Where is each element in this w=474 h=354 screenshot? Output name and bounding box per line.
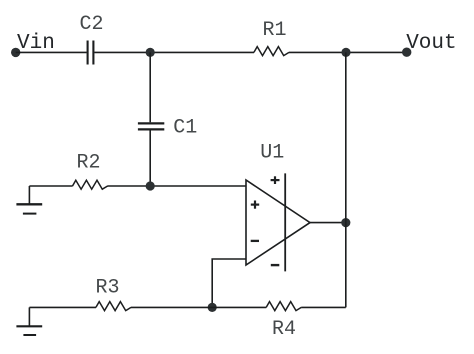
wire R4 to feedback column bbox=[301, 306, 346, 308]
wire R3 to junction bbox=[131, 306, 212, 308]
capacitor C1 bbox=[138, 123, 164, 129]
ground GND1 bbox=[16, 186, 42, 214]
wire inverting input to feedback node bbox=[212, 259, 246, 307]
resistor R4 bbox=[266, 302, 301, 311]
node Vout bbox=[402, 48, 411, 57]
junction node R3/R4 bbox=[208, 303, 217, 312]
wire R1 to Vout bbox=[289, 51, 407, 53]
op-amp negative supply symbol bbox=[271, 264, 280, 266]
resistor R1 bbox=[254, 47, 289, 56]
resistor R3 bbox=[96, 302, 131, 311]
svg-text:U1: U1 bbox=[260, 141, 284, 164]
junction node at feedback column bbox=[341, 48, 350, 57]
svg-text:R4: R4 bbox=[272, 318, 296, 341]
op-amp plus input symbol bbox=[251, 201, 259, 209]
op-amp U1 triangle bbox=[246, 180, 310, 265]
svg-text:R2: R2 bbox=[76, 151, 100, 174]
svg-text:Vout: Vout bbox=[406, 32, 456, 55]
node Vin bbox=[11, 48, 20, 57]
wire GND1 to R2 bbox=[29, 185, 72, 187]
wire C1 to R2 rail bbox=[149, 130, 151, 186]
ground GND2 bbox=[16, 307, 42, 335]
op-amp minus input symbol bbox=[251, 240, 259, 242]
wire C2 to R1 bbox=[94, 51, 254, 53]
wire junction to R4 bbox=[212, 306, 266, 308]
resistor R2 bbox=[73, 180, 108, 189]
capacitor C2 bbox=[88, 41, 94, 65]
op-amp positive supply symbol bbox=[271, 176, 280, 184]
svg-text:C1: C1 bbox=[173, 117, 197, 140]
junction node on R2 rail bbox=[146, 181, 155, 190]
junction node at op-amp output bbox=[341, 218, 350, 227]
wire R2 to op-amp non-inverting input bbox=[108, 185, 247, 187]
wire junction to C1 bbox=[149, 52, 151, 122]
svg-text:R1: R1 bbox=[262, 19, 286, 42]
wire Vin to C2 bbox=[16, 51, 87, 53]
junction node at C1 branch bbox=[146, 48, 155, 57]
svg-text:C2: C2 bbox=[79, 13, 103, 36]
op-amp U1 power line bbox=[284, 173, 286, 271]
wire feedback column bbox=[345, 52, 347, 307]
wire op-amp output bbox=[310, 222, 346, 224]
svg-text:R3: R3 bbox=[95, 277, 119, 300]
wire GND2 to R3 bbox=[29, 306, 96, 308]
